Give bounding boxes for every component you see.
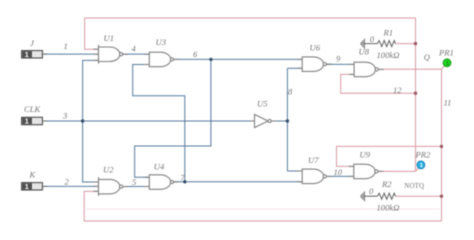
wire 11 branch to U9 (337, 146, 442, 166)
junction node 6 (209, 58, 212, 61)
svg-text:R1: R1 (383, 28, 394, 38)
ground (net 0, top) (361, 39, 377, 49)
wire 12 branch (341, 74, 416, 93)
svg-text:2: 2 (65, 177, 70, 187)
svg-text:R2: R2 (381, 179, 392, 189)
wire CLK branch down to U2 (83, 121, 99, 182)
svg-text:CLK: CLK (24, 104, 42, 114)
ground (net 0, bottom) (361, 191, 377, 201)
NAND gate U3 (144, 52, 179, 66)
wire 8 to U7 (287, 170, 302, 172)
NAND gate U6 (297, 57, 332, 72)
wire CLK (3) (44, 120, 255, 122)
wire ghost artifact (86, 208, 440, 210)
svg-text:1: 1 (25, 50, 29, 59)
svg-text:U5: U5 (257, 99, 268, 109)
probe PR2 (416, 161, 425, 171)
svg-text:4: 4 (132, 44, 137, 54)
junction node 7 (183, 180, 186, 183)
wire R1 to net (395, 43, 415, 45)
wire 8 vertical (286, 68, 288, 171)
svg-text:U3: U3 (156, 37, 167, 47)
NAND gate U1 (94, 45, 129, 64)
svg-text:8: 8 (288, 87, 293, 97)
wire 7 feedback to U3 bottom input (133, 65, 185, 182)
svg-text:5: 5 (132, 177, 137, 187)
svg-text:3: 3 (62, 111, 67, 121)
junction wire 12 (414, 92, 417, 95)
svg-text:PR1: PR1 (438, 48, 454, 58)
connector K (22, 182, 47, 191)
svg-text:0: 0 (369, 186, 374, 196)
wire J input (1) (44, 53, 99, 55)
svg-text:U7: U7 (308, 155, 319, 165)
svg-text:NOTQ: NOTQ (404, 183, 424, 190)
junction wire 11 (440, 145, 443, 148)
connector J (22, 50, 47, 59)
wire 8 to U6 (287, 67, 302, 69)
probe PR1 (442, 59, 451, 69)
wire 6 feedback to U4 top input (135, 59, 211, 177)
svg-text:U6: U6 (310, 43, 321, 53)
svg-text:U2: U2 (103, 164, 114, 174)
wire 10 (327, 175, 354, 177)
wire 6 (173, 58, 302, 60)
svg-text:10: 10 (334, 167, 343, 177)
wire U9 output to PR2 (377, 170, 415, 172)
wire 7 (174, 181, 303, 183)
svg-text:1: 1 (25, 117, 29, 126)
inverter U5 (250, 114, 277, 127)
wire 4 (123, 53, 150, 55)
wire Q from U8 (84, 69, 441, 221)
svg-text:6: 6 (193, 49, 198, 59)
svg-text:Q: Q (424, 52, 431, 62)
svg-text:12: 12 (393, 85, 402, 95)
svg-text:1: 1 (64, 41, 68, 51)
junction R1 net (414, 42, 417, 45)
svg-text:U4: U4 (154, 161, 165, 171)
wire CLK branch up to U1 (83, 60, 99, 121)
svg-text:11: 11 (444, 98, 452, 108)
svg-text:100kΩ: 100kΩ (377, 203, 400, 213)
svg-text:7: 7 (181, 173, 186, 183)
wire R2 to net (395, 195, 441, 197)
svg-text:1: 1 (25, 182, 29, 191)
wire 5 (122, 186, 150, 188)
svg-text:U1: U1 (104, 33, 115, 43)
wire 9 (327, 63, 355, 65)
wire K input (2) (44, 185, 99, 187)
junction node 8 (286, 119, 289, 122)
NAND gate U4 (144, 175, 179, 190)
NAND gate U9 (349, 164, 384, 179)
NAND gate U7 (297, 169, 332, 184)
connector CLK (22, 117, 47, 126)
junction CLK (81, 119, 84, 122)
svg-text:100kΩ: 100kΩ (377, 50, 400, 60)
svg-text:U9: U9 (360, 150, 371, 160)
wire U5 output (8) (271, 120, 287, 122)
wire NOTQ feedback top loop (85, 18, 416, 171)
resistor R2 (377, 193, 395, 199)
svg-text:9: 9 (336, 54, 341, 64)
NAND gate U2 (94, 177, 129, 196)
junction R2 net (440, 195, 443, 198)
svg-text:0: 0 (370, 34, 375, 44)
NAND gate U8 (349, 62, 384, 76)
svg-text:PR2: PR2 (415, 150, 431, 160)
resistor R1 (377, 41, 395, 47)
